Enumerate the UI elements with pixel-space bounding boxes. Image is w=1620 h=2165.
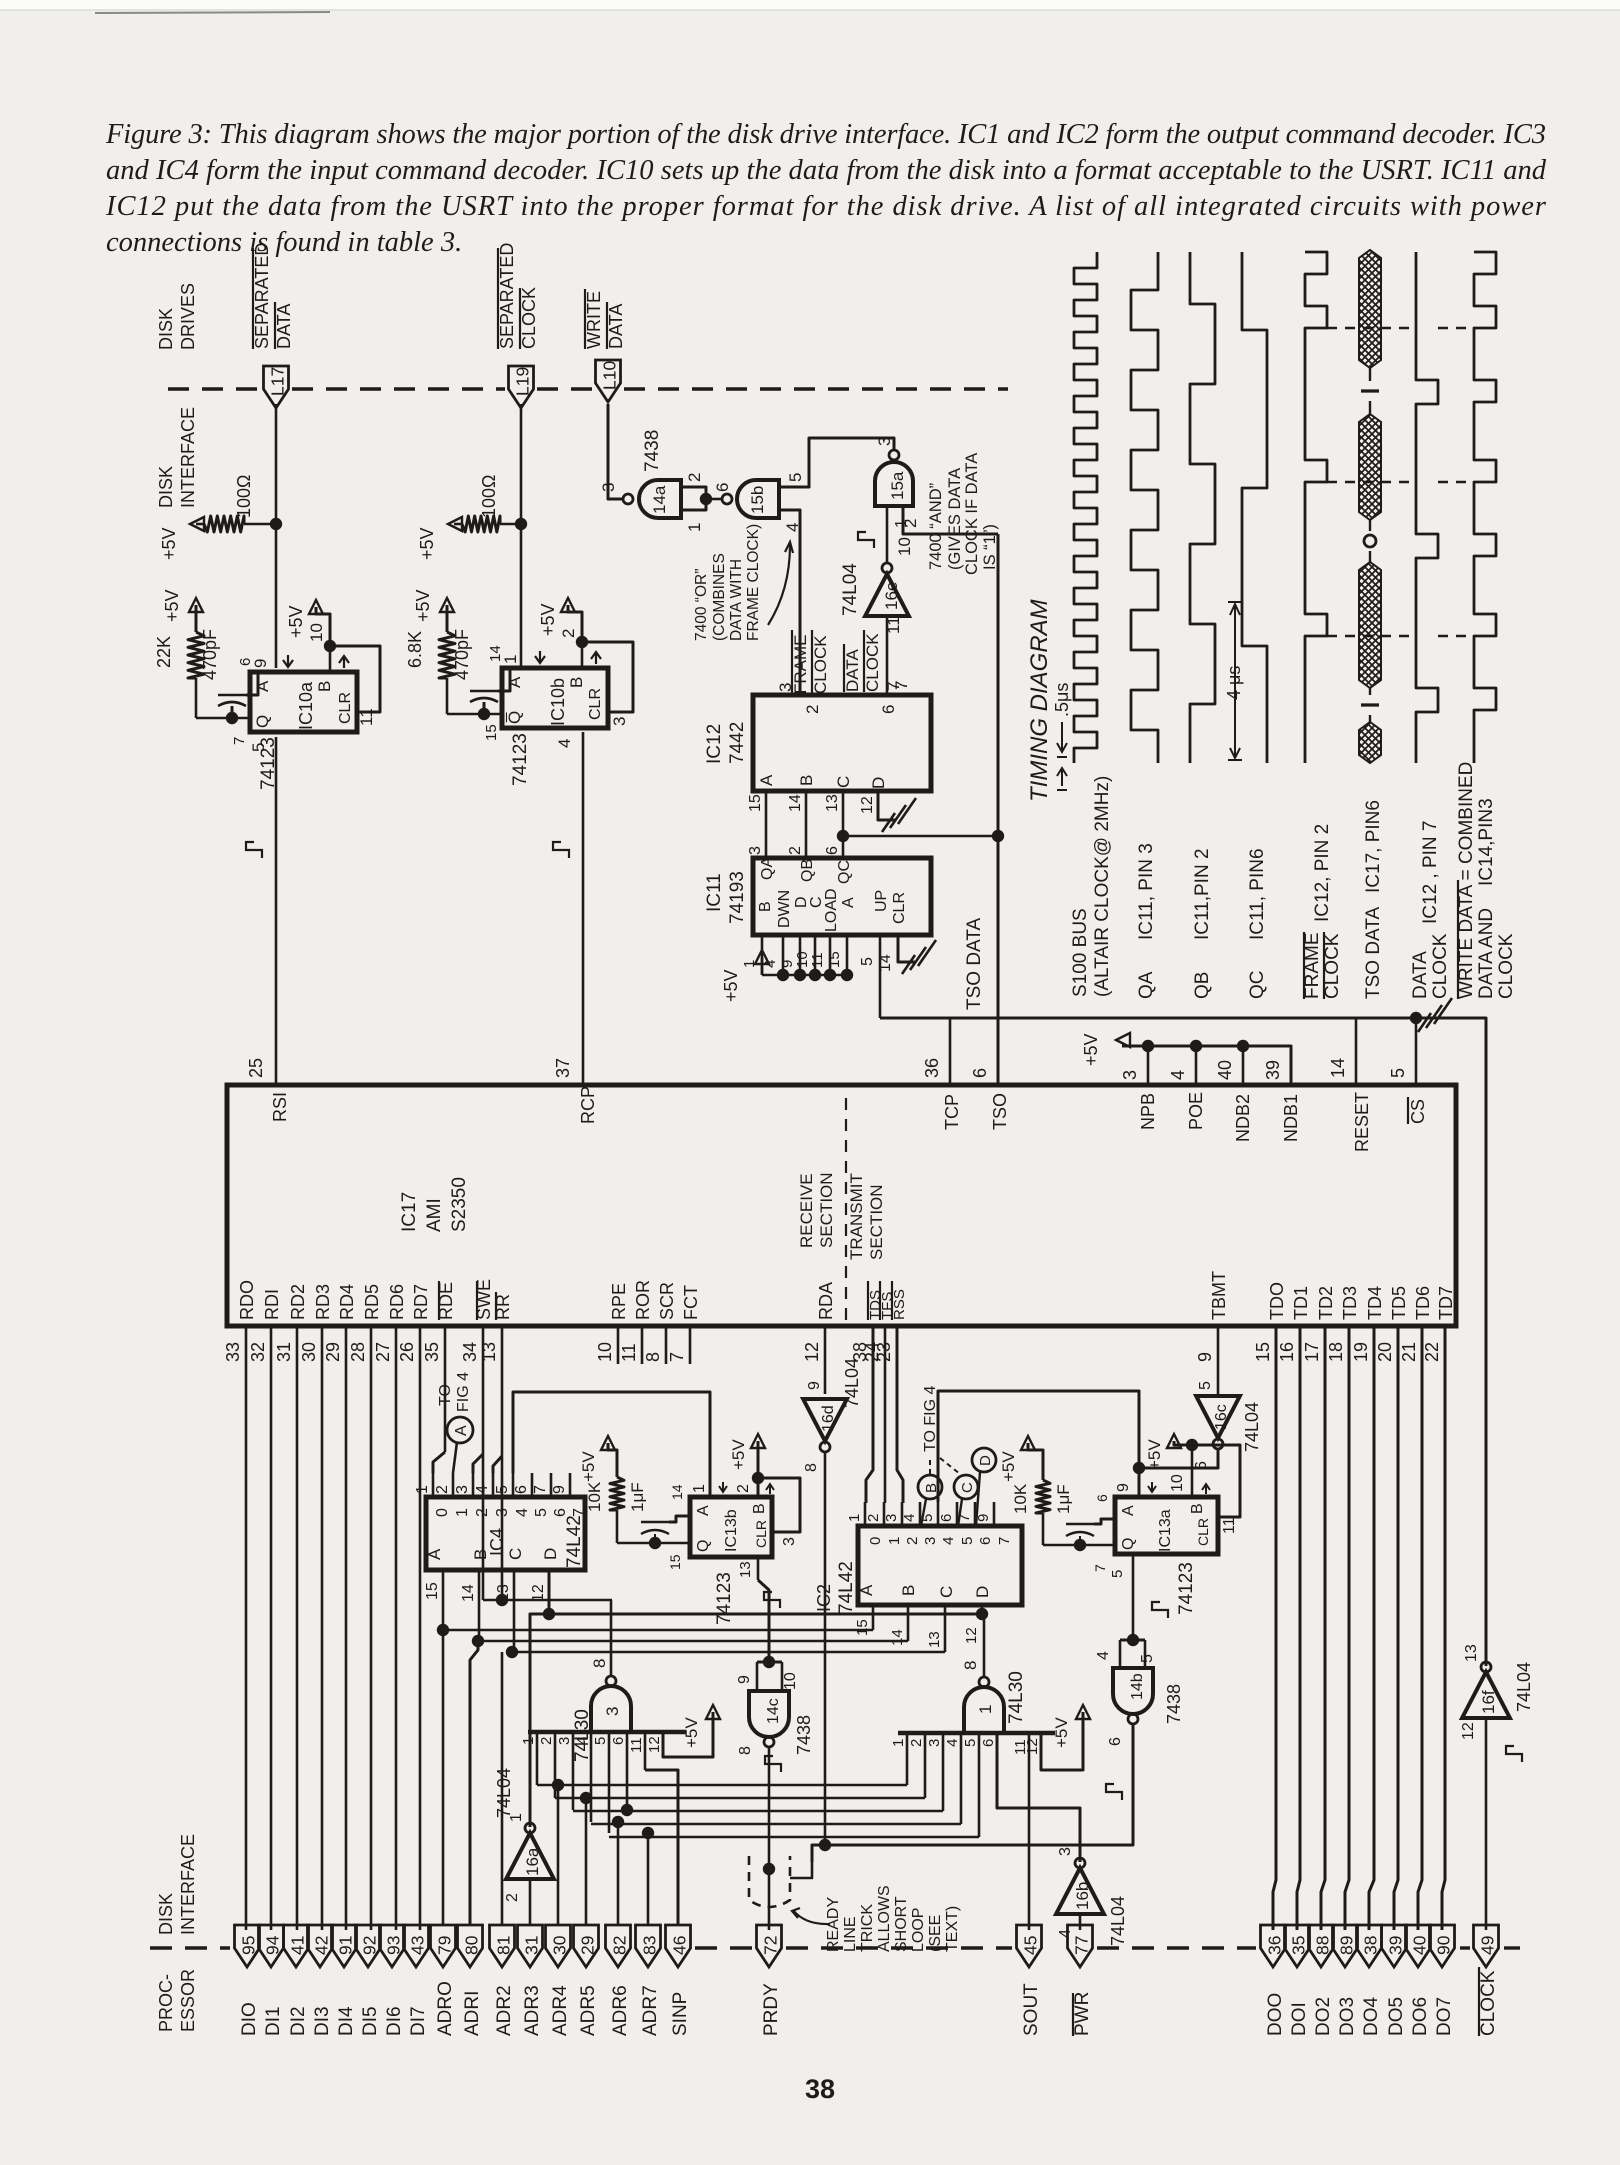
processor tag DI5 pin 92: [356, 1925, 381, 1967]
svg-text:CLOCK: CLOCK: [1496, 933, 1517, 999]
stub ROR: [641, 1326, 644, 1364]
svg-text:TSO: TSO: [990, 1093, 1010, 1130]
arrow note to ready gate: [793, 1910, 830, 1924]
svg-text:A: A: [857, 1584, 876, 1596]
svg-text:4: 4: [474, 1485, 491, 1494]
svg-text:+5V: +5V: [579, 1451, 598, 1482]
svg-text:3: 3: [603, 1707, 622, 1716]
one-shot IC13a 74123: [1115, 1497, 1218, 1554]
processor tag DI4 pin 91: [332, 1925, 357, 1967]
dashed boundary disk drives / disk interface: [168, 387, 262, 390]
svg-text:89: 89: [1337, 1936, 1357, 1955]
svg-text:30: 30: [299, 1342, 319, 1362]
wire TCP clock line: [949, 1018, 952, 1085]
svg-text:2: 2: [434, 1485, 451, 1494]
svg-text:28: 28: [348, 1342, 368, 1362]
svg-text:SHORT: SHORT: [893, 1896, 910, 1952]
wire RDE to IC4 pin1: [444, 1326, 447, 1452]
IC IC17 AMI S2350 USRT: [227, 1085, 1456, 1326]
svg-text:C: C: [959, 1482, 976, 1493]
svg-text:82: 82: [610, 1936, 630, 1955]
svg-text:S2350: S2350: [449, 1177, 470, 1232]
svg-text:DO3: DO3: [1337, 1997, 1358, 2036]
svg-text:8: 8: [590, 1659, 609, 1668]
svg-text:A: A: [757, 774, 776, 786]
svg-text:14: 14: [487, 645, 504, 662]
svg-text:6: 6: [977, 1537, 994, 1545]
svg-text:3: 3: [776, 683, 795, 692]
svg-text:81: 81: [494, 1936, 514, 1955]
svg-text:11: 11: [357, 708, 376, 726]
svg-text:A: A: [425, 1548, 444, 1560]
IC13a Q pin5 wire to 14b: [1132, 1554, 1135, 1640]
svg-text:DATA: DATA: [274, 304, 294, 349]
wire RCP from IC10b Qbar: [582, 732, 585, 1085]
svg-text:(COMBINES: (COMBINES: [711, 553, 728, 641]
svg-text:7: 7: [532, 1485, 549, 1494]
svg-text:20: 20: [1375, 1342, 1395, 1362]
svg-text:RDO: RDO: [237, 1280, 257, 1320]
svg-text:IC11, PIN6: IC11, PIN6: [1247, 848, 1268, 940]
svg-text:10K: 10K: [1011, 1483, 1030, 1514]
processor tag DO6 pin 40: [1406, 1925, 1431, 1967]
IC2 output pin 4: [919, 1502, 922, 1526]
processor tag DIO pin 95: [235, 1925, 260, 1967]
svg-text:5: 5: [494, 1485, 511, 1494]
svg-text:9: 9: [1195, 1352, 1215, 1362]
wire 14b output to prdy net: [812, 1724, 1133, 1862]
svg-text:36: 36: [1265, 1936, 1285, 1955]
resistor 6.8K: [440, 598, 454, 612]
svg-text:94: 94: [263, 1935, 283, 1955]
svg-text:CLR: CLR: [587, 688, 604, 720]
NAND 14b 7438 (inverter): [1127, 1634, 1139, 1646]
svg-text:CLR: CLR: [337, 692, 354, 724]
one-shot IC10b 74123: [502, 668, 608, 728]
IC4 output pin 4: [492, 1473, 495, 1497]
svg-text:IC17: IC17: [399, 1192, 420, 1232]
svg-text:74L04: 74L04: [840, 563, 861, 616]
svg-text:15: 15: [1253, 1342, 1273, 1362]
svg-text:14: 14: [889, 1629, 906, 1646]
IC2 input stubs 15/14/13/12: [872, 1605, 875, 1630]
svg-text:1μF: 1μF: [1054, 1484, 1073, 1514]
svg-text:CLOCK: CLOCK: [811, 635, 830, 694]
tag L19 separated clock: [520, 404, 523, 668]
svg-text:LOOP: LOOP: [910, 1908, 927, 1952]
svg-text:8: 8: [643, 1352, 663, 1362]
svg-text:C: C: [834, 776, 853, 788]
svg-text:33: 33: [223, 1342, 243, 1362]
svg-text:IC10a: IC10a: [296, 681, 316, 730]
svg-text:2: 2: [685, 473, 704, 482]
svg-text:6: 6: [980, 1739, 997, 1747]
svg-text:LOAD: LOAD: [823, 888, 840, 932]
svg-text:26: 26: [397, 1342, 417, 1362]
svg-text:1: 1: [741, 960, 758, 968]
svg-text:4: 4: [944, 1739, 961, 1747]
svg-text:15b: 15b: [748, 486, 767, 514]
svg-text:40: 40: [1215, 1060, 1235, 1080]
svg-text:5: 5: [592, 1737, 609, 1745]
svg-text:TD2: TD2: [1316, 1286, 1336, 1320]
svg-text:7442: 7442: [727, 722, 748, 764]
svg-text:DO4: DO4: [1361, 1997, 1382, 2037]
svg-text:PROC-: PROC-: [156, 1974, 176, 2032]
svg-text:ESSOR: ESSOR: [178, 1969, 198, 2032]
svg-text:14: 14: [877, 954, 894, 972]
svg-text:1: 1: [454, 1508, 471, 1517]
svg-text:10: 10: [307, 623, 326, 642]
wire RR to IC3 output net: [501, 1326, 504, 1600]
svg-text:B: B: [923, 1483, 940, 1493]
svg-text:6: 6: [970, 1068, 990, 1078]
IC1 output pin 8: [983, 1614, 986, 1677]
svg-text:DI7: DI7: [408, 2006, 429, 2036]
svg-text:.5μs: .5μs: [1052, 683, 1072, 717]
svg-text:A: A: [1120, 1505, 1137, 1516]
svg-text:DI4: DI4: [336, 2006, 357, 2036]
wire TBMT to 16c: [1217, 1326, 1220, 1394]
svg-text:+5V: +5V: [1081, 1033, 1101, 1066]
svg-text:74L04: 74L04: [1514, 1662, 1534, 1712]
14a inputs tied: [681, 487, 706, 510]
svg-text:FRAME CLOCK): FRAME CLOCK): [745, 524, 762, 641]
svg-text:10: 10: [1169, 1474, 1186, 1492]
svg-text:RD5: RD5: [362, 1284, 382, 1320]
svg-text:8: 8: [961, 1661, 980, 1670]
svg-text:6: 6: [237, 658, 254, 666]
svg-text:ADR2: ADR2: [494, 1985, 515, 2036]
svg-text:4: 4: [514, 1508, 531, 1517]
IC2 output pin 2: [883, 1502, 886, 1526]
svg-text:IC11: IC11: [704, 873, 725, 912]
svg-text:92: 92: [360, 1936, 380, 1955]
svg-text:42: 42: [312, 1936, 332, 1955]
svg-text:1: 1: [976, 1705, 995, 1714]
svg-text:IC12 , PIN 7: IC12 , PIN 7: [1420, 821, 1441, 925]
svg-text:3: 3: [454, 1485, 471, 1494]
ADR4 riser joins bus: [552, 1779, 564, 1791]
svg-text:74123: 74123: [510, 733, 531, 786]
svg-text:SECTION: SECTION: [817, 1172, 836, 1248]
svg-text:DWN: DWN: [776, 890, 793, 928]
svg-text:4: 4: [783, 523, 802, 532]
svg-text:FCT: FCT: [681, 1285, 701, 1320]
svg-text:DATA AND: DATA AND: [1476, 908, 1497, 999]
svg-text:LINE: LINE: [842, 1916, 859, 1952]
svg-text:S100 BUS: S100 BUS: [1070, 908, 1091, 997]
svg-text:QB: QB: [1192, 972, 1213, 999]
svg-text:12: 12: [802, 1342, 822, 1362]
svg-text:19: 19: [1351, 1342, 1371, 1362]
15b input pin4 frame clock: [779, 510, 800, 695]
svg-text:74L04: 74L04: [842, 1358, 862, 1408]
svg-text:CLR: CLR: [753, 1520, 769, 1548]
svg-text:FIG 4: FIG 4: [455, 1372, 472, 1412]
resistor 100ohm pullup (L17): [190, 517, 204, 531]
processor tag ADRI pin 80: [458, 1925, 483, 1967]
svg-text:4: 4: [940, 1537, 957, 1545]
svg-text:3: 3: [781, 1537, 798, 1546]
svg-text:7438: 7438: [1164, 1684, 1184, 1724]
svg-text:35: 35: [1289, 1936, 1309, 1955]
svg-text:470pF: 470pF: [200, 629, 220, 680]
svg-text:INTERFACE: INTERFACE: [178, 1834, 198, 1935]
IC2 output pin 3: [901, 1502, 904, 1526]
svg-text:2: 2: [865, 1514, 882, 1522]
svg-text:11: 11: [809, 952, 826, 968]
svg-text:8: 8: [737, 1746, 754, 1755]
svg-text:16: 16: [1277, 1342, 1297, 1362]
svg-text:(SEE: (SEE: [927, 1915, 944, 1952]
svg-text:9: 9: [1115, 1483, 1132, 1492]
IC11 CLR pin14 ground: [898, 935, 916, 962]
wire IC4 pin5 to IC13b A: [513, 1392, 710, 1497]
waveform DATA CLOCK: [1416, 252, 1438, 763]
processor tag DI7 pin 43: [404, 1925, 429, 1967]
svg-text:30: 30: [550, 1935, 570, 1955]
inverter 16d 74L04: [803, 1399, 847, 1441]
svg-text:DO5: DO5: [1386, 1997, 1407, 2036]
svg-text:D: D: [977, 1455, 994, 1466]
bus ADR1 line: [478, 1640, 908, 1643]
processor tag SOUT pin 45: [1017, 1925, 1042, 1967]
svg-text:39: 39: [1386, 1936, 1406, 1955]
svg-text:3: 3: [1120, 1070, 1140, 1080]
IC2 output pin 6: [956, 1502, 959, 1526]
svg-text:5: 5: [859, 957, 876, 966]
svg-text:+5V: +5V: [729, 1439, 748, 1470]
svg-text:+5V: +5V: [1145, 1439, 1164, 1470]
IC10a CLR pin 11 loop: [330, 646, 380, 712]
svg-text:2: 2: [908, 1739, 925, 1747]
IC13b pin2 B +5V: [751, 1434, 765, 1448]
svg-text:3: 3: [747, 846, 764, 855]
processor tag DI1 pin 94: [259, 1925, 284, 1967]
15a input 1 from 16e: [886, 506, 889, 563]
svg-text:+5V: +5V: [417, 527, 437, 560]
svg-text:3: 3: [922, 1537, 939, 1545]
svg-text:38: 38: [1361, 1936, 1381, 1955]
svg-text:IC11, PIN 3: IC11, PIN 3: [1136, 843, 1157, 940]
IC2 output pin 7: [974, 1502, 977, 1526]
svg-text:RD2: RD2: [288, 1284, 308, 1320]
svg-text:91: 91: [336, 1936, 356, 1955]
svg-text:1: 1: [520, 1737, 537, 1745]
waveform QA: [1131, 252, 1158, 763]
wire 16e to IC12 pin7 data clock: [886, 616, 889, 695]
inverter 16a 74L04: [506, 1833, 554, 1879]
svg-text:RDI: RDI: [262, 1289, 282, 1320]
svg-text:IC11,PIN 2: IC11,PIN 2: [1192, 848, 1213, 940]
bus ADR2 line: [512, 1651, 945, 1654]
svg-text:12: 12: [646, 1736, 663, 1753]
15b input pin5 from 15a output: [779, 438, 894, 487]
processor tag CLOCK pin 49: [1474, 1925, 1499, 1967]
svg-text:5: 5: [962, 1739, 979, 1747]
svg-text:74L42: 74L42: [836, 1561, 857, 1614]
svg-text:RCP: RCP: [578, 1086, 598, 1124]
ADR5 riser joins bus: [580, 1792, 592, 1804]
tag L10 write data: [596, 360, 621, 402]
wire RSI from IC10a Q: [275, 737, 278, 1085]
svg-text:6: 6: [879, 705, 898, 714]
IC1 pin 6 to 16b output: [997, 1733, 1080, 1862]
wire IC4 pin3 to SWE: [473, 1454, 483, 1473]
processor tag ADRO pin 79: [431, 1925, 456, 1967]
IC3 pin 12 to +5V: [663, 1712, 713, 1757]
svg-text:ADRI: ADRI: [462, 1991, 483, 2036]
svg-text:9: 9: [551, 1485, 568, 1494]
svg-text:6: 6: [938, 1514, 955, 1522]
svg-text:10: 10: [895, 537, 914, 556]
svg-text:B: B: [899, 1585, 918, 1596]
svg-text:0: 0: [434, 1508, 451, 1517]
svg-text:5: 5: [533, 1508, 550, 1517]
svg-text:DISK: DISK: [156, 308, 176, 350]
svg-text:6: 6: [610, 1737, 627, 1745]
processor tag DOI pin 35: [1285, 1925, 1310, 1967]
bus sinp-bar line from 16a: [530, 1614, 982, 1827]
phantom or-gate ready line trick (dashed): [749, 1856, 790, 1907]
IC10a pin15/7 node: [196, 717, 250, 720]
svg-text:15: 15: [854, 1619, 871, 1636]
svg-text:B: B: [751, 1503, 768, 1514]
svg-text:IC10b: IC10b: [548, 678, 568, 726]
svg-text:2: 2: [787, 846, 804, 855]
svg-text:IC12: IC12: [704, 724, 725, 764]
stub RPE: [617, 1326, 620, 1364]
processor tag ADR6 pin 82: [606, 1925, 631, 1967]
wire SWE to IC3 output net: [482, 1326, 485, 1600]
svg-text:1: 1: [414, 1485, 431, 1494]
svg-text:6: 6: [713, 483, 732, 492]
svg-text:DOO: DOO: [1265, 1993, 1286, 2036]
svg-text:DO7: DO7: [1434, 1997, 1455, 2036]
svg-text:TSO DATA: TSO DATA: [1363, 906, 1384, 999]
svg-text:7438: 7438: [642, 430, 663, 472]
IC3 output pin 8: [610, 1600, 613, 1676]
svg-text:12: 12: [963, 1627, 980, 1644]
stub SCR: [665, 1326, 668, 1364]
svg-text:B: B: [797, 775, 816, 786]
svg-text:9: 9: [806, 1381, 823, 1390]
circle C to fig4: [954, 1475, 978, 1499]
svg-text:+5V: +5V: [682, 1717, 701, 1748]
svg-text:15: 15: [424, 1582, 441, 1600]
svg-text:6: 6: [824, 846, 841, 855]
svg-text:TIMING DIAGRAM: TIMING DIAGRAM: [1026, 599, 1053, 802]
wire TSO data line: [997, 534, 1000, 1085]
svg-text:1: 1: [846, 1514, 863, 1522]
svg-text:74L04: 74L04: [1108, 1896, 1128, 1946]
svg-text:CLOCK: CLOCK: [1322, 933, 1343, 999]
svg-text:1: 1: [886, 1537, 903, 1545]
ADR7 riser joins bus: [642, 1827, 654, 1839]
tag L17 separated data: [275, 404, 278, 668]
processor tag DO2 pin 88: [1309, 1925, 1334, 1967]
svg-text:80: 80: [462, 1935, 482, 1955]
svg-text:16b: 16b: [1073, 1882, 1092, 1910]
svg-text:5: 5: [1197, 1381, 1214, 1390]
svg-text:2: 2: [803, 705, 822, 714]
svg-text:74L30: 74L30: [1006, 1671, 1027, 1724]
svg-text:36: 36: [922, 1058, 942, 1078]
+5V rail NPB/POE/NDB2/NDB1: [1122, 1046, 1291, 1085]
svg-text:3: 3: [610, 717, 629, 726]
svg-text:39: 39: [1263, 1060, 1283, 1080]
svg-text:15: 15: [667, 1554, 683, 1570]
svg-text:74L42: 74L42: [564, 1515, 585, 1568]
svg-text:10: 10: [595, 1342, 615, 1362]
svg-text:TD4: TD4: [1365, 1286, 1385, 1320]
svg-text:37: 37: [553, 1058, 573, 1078]
svg-text:93: 93: [384, 1936, 404, 1955]
svg-text:29: 29: [323, 1342, 343, 1362]
wire CS tie with ground: [1415, 1018, 1418, 1085]
svg-text:40: 40: [1410, 1935, 1430, 1955]
svg-text:1: 1: [691, 1484, 708, 1493]
svg-text:15a: 15a: [888, 471, 907, 500]
processor tag ADR3 pin 31: [518, 1925, 543, 1967]
svg-text:L10: L10: [600, 361, 620, 390]
IC4 output pin 5: [512, 1473, 515, 1497]
one-shot IC13b 74123: [690, 1497, 772, 1557]
svg-text:6: 6: [1094, 1494, 1110, 1502]
svg-text:470pF: 470pF: [452, 629, 472, 680]
svg-text:FRAME: FRAME: [1302, 933, 1323, 1000]
svg-text:CLR: CLR: [891, 892, 908, 924]
svg-text:1: 1: [685, 523, 704, 532]
svg-text:21: 21: [1399, 1342, 1419, 1362]
svg-text:TO FIG 4: TO FIG 4: [922, 1386, 939, 1452]
svg-text:QA: QA: [759, 857, 776, 880]
svg-text:2: 2: [538, 1737, 555, 1745]
svg-text:7: 7: [996, 1537, 1013, 1545]
svg-text:29: 29: [578, 1936, 598, 1955]
svg-text:TD6: TD6: [1413, 1286, 1433, 1320]
svg-text:PRDY: PRDY: [761, 1983, 782, 2036]
svg-text:DATA: DATA: [1410, 951, 1431, 999]
svg-text:ADRO: ADRO: [435, 1981, 456, 2036]
receive/transmit divider: [845, 1098, 847, 1324]
svg-text:77: 77: [1072, 1936, 1092, 1955]
svg-text:CLOCK IF DATA: CLOCK IF DATA: [963, 453, 981, 575]
svg-text:14: 14: [1328, 1058, 1348, 1078]
svg-text:SEPARATED: SEPARATED: [497, 243, 517, 349]
svg-text:74123: 74123: [714, 1572, 735, 1625]
svg-text:22K: 22K: [154, 636, 174, 668]
svg-text:DO6: DO6: [1410, 1997, 1431, 2036]
svg-text:SOUT: SOUT: [1021, 1983, 1042, 2036]
svg-text:DI2: DI2: [288, 2006, 309, 2036]
svg-text:CLOCK: CLOCK: [1430, 933, 1451, 999]
IC4 output pin 1: [432, 1473, 435, 1497]
NAND 14a 7438: [623, 494, 633, 504]
circle B to fig4: [918, 1475, 942, 1499]
wire TSO data from QC node: [843, 835, 998, 838]
svg-text:DO2: DO2: [1313, 1997, 1334, 2036]
IC13a pin10 B +5V: [1167, 1434, 1181, 1448]
svg-text:RD6: RD6: [387, 1284, 407, 1320]
circle D to fig4: [972, 1448, 996, 1472]
svg-text:2: 2: [735, 1484, 752, 1493]
svg-text:RD4: RD4: [337, 1284, 357, 1320]
svg-text:4: 4: [762, 960, 779, 968]
svg-text:DI5: DI5: [360, 2006, 381, 2036]
resistor 22K: [189, 598, 203, 612]
